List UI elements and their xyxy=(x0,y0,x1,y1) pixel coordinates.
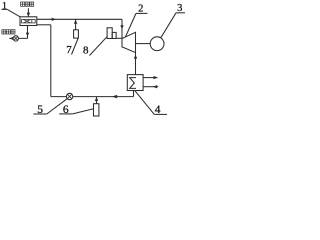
wire hot inlet into box 1 top xyxy=(27,8,30,17)
label 1 xyxy=(2,2,21,17)
wire return into box 1 right side xyxy=(37,24,51,26)
text hot-stream-in (热流进) xyxy=(21,2,34,6)
component 8 step valve xyxy=(107,28,122,39)
label 2 xyxy=(126,4,148,37)
svg-text:1: 1 xyxy=(2,2,7,12)
condenser 4 box with coil xyxy=(127,75,143,91)
wire condensate bottom line xyxy=(51,95,134,99)
wire makeup stub into bottom line xyxy=(95,97,98,104)
wire cooling water outlet xyxy=(143,76,158,79)
generator 3 circle xyxy=(150,37,164,51)
svg-text:3: 3 xyxy=(177,3,182,14)
heat exchanger / evaporator box 1 xyxy=(20,17,37,26)
svg-text:8: 8 xyxy=(83,45,89,57)
label 7 xyxy=(66,39,78,57)
wire drain from box 1 bottom xyxy=(26,26,29,39)
label 6 xyxy=(59,104,93,116)
wire turbine exhaust down to condenser xyxy=(134,53,137,75)
pump circle on cold-out line xyxy=(13,36,18,41)
wire steam line from box 1 to turbine inlet corner xyxy=(37,18,122,21)
pump 5 circle on bottom line xyxy=(66,93,72,99)
text cold-stream-out (冷流出) xyxy=(2,30,15,34)
wire return riser xyxy=(50,25,52,97)
wire turbine inlet drop xyxy=(120,19,123,38)
label 8 xyxy=(83,37,107,57)
svg-text:2: 2 xyxy=(138,4,143,15)
component 6 supply box xyxy=(94,104,99,116)
label 5 xyxy=(33,99,67,117)
label 4 xyxy=(135,91,167,116)
wire cold-stream-out horizontal xyxy=(9,37,27,40)
component 7 supply box xyxy=(74,30,79,38)
label 3 xyxy=(161,3,185,38)
wire riser of component 7 into steam line xyxy=(74,19,77,29)
turbine 2 xyxy=(122,32,136,52)
wire condensate drop from condenser xyxy=(133,91,135,97)
wire cooling water inlet xyxy=(143,85,158,88)
wire shaft turbine to generator xyxy=(136,43,151,45)
